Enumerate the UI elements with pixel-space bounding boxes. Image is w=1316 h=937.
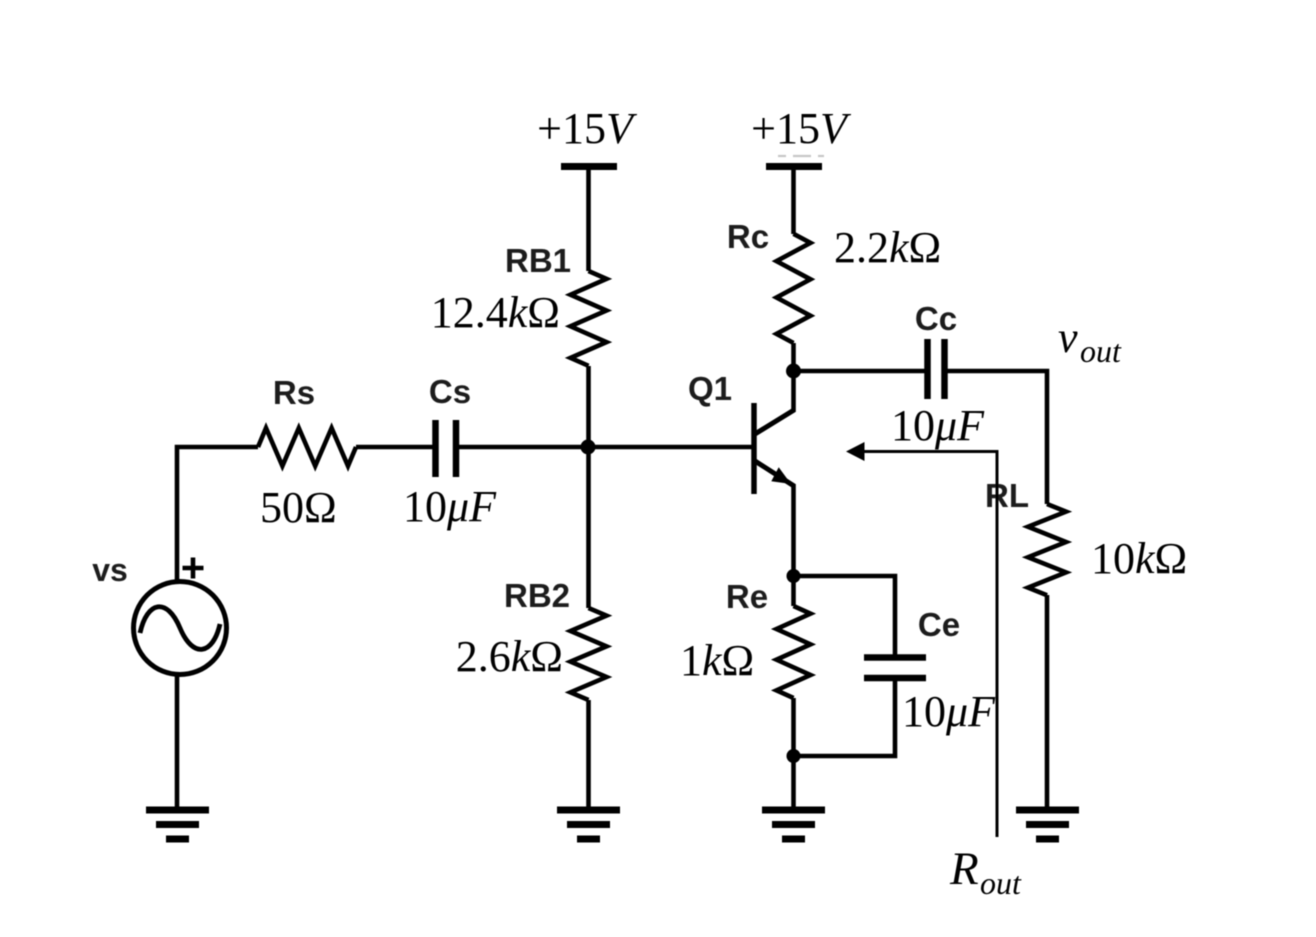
node collector	[786, 364, 801, 379]
voltage source vs	[134, 582, 227, 675]
wire collector node to Rc	[791, 343, 796, 371]
node emitter	[787, 569, 801, 583]
resistor Re	[777, 606, 811, 698]
wire +15V to RB1	[586, 167, 591, 272]
svg-text:2.2kΩ: 2.2kΩ	[834, 223, 941, 272]
ground (Re)	[762, 810, 825, 839]
svg-text:50Ω: 50Ω	[260, 483, 337, 532]
transistor Q1	[754, 403, 794, 494]
ground (vs)	[146, 810, 209, 839]
svg-text:Re: Re	[726, 578, 768, 615]
svg-text:Cs: Cs	[429, 373, 471, 410]
node base junction	[581, 440, 596, 455]
svg-text:Rs: Rs	[273, 374, 315, 411]
svg-text:out: out	[980, 865, 1022, 901]
wire node to RB2	[586, 447, 591, 608]
wire RB1 to node	[586, 366, 591, 447]
wire Re to bottom node	[791, 698, 796, 756]
capacitor Cc	[928, 339, 945, 399]
svg-text:RB1: RB1	[505, 242, 571, 279]
erased artifact above right rail	[778, 155, 824, 157]
wire Rc to +15V	[791, 167, 796, 235]
svg-text:12.4kΩ: 12.4kΩ	[431, 288, 560, 337]
svg-text:vs: vs	[92, 552, 128, 588]
svg-text:10μF: 10μF	[891, 401, 985, 450]
svg-text:10kΩ: 10kΩ	[1091, 534, 1187, 583]
wire vs to ground	[175, 674, 180, 808]
svg-text:v: v	[1058, 313, 1078, 362]
wire collector node to Cc	[794, 369, 925, 374]
wire base node to Q1 base	[588, 445, 752, 450]
ground (RB2)	[557, 810, 620, 839]
svg-text:+15V: +15V	[751, 104, 852, 153]
svg-text:R: R	[949, 843, 979, 895]
wire Cs to base node	[459, 445, 588, 450]
node Re bottom	[787, 749, 801, 763]
resistor RB1	[571, 271, 607, 366]
wire RL to ground	[1045, 595, 1050, 808]
wire Rs to Cs	[356, 445, 433, 450]
power rail +15V (left)	[561, 163, 617, 170]
svg-text:RB2: RB2	[504, 577, 570, 614]
wire Ce to bottom node	[794, 681, 896, 756]
plus polarity mark	[183, 558, 204, 579]
svg-text:1kΩ: 1kΩ	[680, 636, 754, 685]
wire emitter node to Ce	[794, 576, 896, 655]
wire Cc to vout corner down to RL	[948, 371, 1048, 504]
resistor RL	[1028, 504, 1066, 595]
ground (RL)	[1016, 810, 1079, 839]
svg-text:+15V: +15V	[537, 104, 638, 153]
wire vs to Rs	[177, 447, 258, 582]
wire collector	[791, 371, 796, 412]
svg-text:Ce: Ce	[918, 606, 960, 643]
resistor Rs	[258, 428, 356, 466]
power rail +15V (right)	[766, 163, 822, 170]
resistor RB2	[571, 608, 607, 700]
wire RB2 to ground	[586, 700, 591, 808]
svg-text:Q1: Q1	[688, 370, 732, 407]
svg-text:Rc: Rc	[727, 218, 769, 255]
svg-text:2.6kΩ: 2.6kΩ	[456, 632, 563, 681]
wire bottom node to ground	[791, 756, 796, 808]
svg-text:RL: RL	[985, 477, 1029, 514]
Rout measurement arrow	[846, 442, 997, 837]
resistor Rc	[777, 234, 811, 343]
svg-text:10μF: 10μF	[902, 687, 996, 736]
capacitor Ce	[864, 658, 926, 679]
svg-text:Cc: Cc	[915, 300, 957, 337]
svg-text:out: out	[1080, 333, 1122, 369]
wire emitter node to Re	[791, 576, 796, 606]
wire emitter	[791, 484, 796, 576]
svg-text:10μF: 10μF	[403, 482, 497, 531]
capacitor Cs	[436, 420, 457, 477]
